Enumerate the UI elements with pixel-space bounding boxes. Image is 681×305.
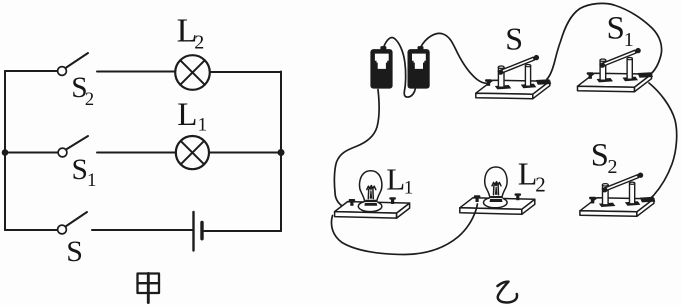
switch S (pictorial) [476, 55, 552, 99]
wire: battery1 bottom to lamp L1 [334, 90, 379, 208]
label S1 (pictorial) [607, 10, 634, 51]
svg-text:L: L [177, 97, 197, 133]
wire: switch S to switch S1 big arc [547, 3, 662, 79]
lamp L2 (schematic) [175, 55, 210, 90]
lamp L2 (pictorial) [460, 167, 535, 214]
wire: switch S1 down to switch S2 [647, 83, 677, 200]
svg-text:2: 2 [608, 156, 618, 178]
wire: middle branch left segment [5, 152, 58, 154]
label S2 (schematic) [71, 72, 94, 110]
label L1 (schematic) [177, 97, 207, 136]
switch S2 (pictorial) [580, 173, 656, 217]
wire: top branch middle segment [97, 71, 175, 73]
wire: middle branch right segment [209, 152, 281, 154]
wire: right vertical rail [280, 72, 282, 232]
wire: battery2 top to switch S [421, 33, 487, 83]
label L2 (schematic) [177, 13, 205, 54]
wire: bottom branch left segment [5, 229, 58, 231]
label S2 (pictorial) [591, 138, 618, 179]
svg-text:1: 1 [87, 170, 97, 191]
wire: top branch left segment [5, 70, 58, 72]
label S1 (schematic) [72, 154, 97, 191]
wire: middle branch middle segment [97, 152, 176, 154]
svg-text:S: S [72, 154, 88, 186]
label S (pictorial) [505, 21, 523, 57]
svg-text:2: 2 [194, 31, 204, 53]
wire: top branch right segment [210, 71, 281, 73]
switch S1 (schematic) [58, 136, 88, 157]
svg-text:L: L [386, 161, 405, 196]
svg-text:1: 1 [624, 29, 634, 51]
svg-text:2: 2 [535, 172, 546, 196]
svg-text:S: S [607, 10, 625, 46]
switch S2 (schematic) [58, 53, 88, 75]
svg-text:S: S [505, 21, 523, 57]
svg-text:S: S [591, 138, 609, 174]
battery cell 1 (pictorial) [370, 46, 392, 89]
wire: bottom branch right segment [204, 230, 281, 232]
label S (schematic) [66, 235, 83, 268]
wire: bottom branch middle segment [92, 229, 192, 231]
lamp L1 (pictorial) [335, 171, 410, 218]
svg-text:1: 1 [404, 178, 414, 199]
wire: left vertical rail [4, 71, 6, 230]
caption jia [138, 274, 160, 303]
battery cell 2 (pictorial) [408, 46, 430, 89]
switch S1 (pictorial) [578, 48, 654, 92]
svg-text:S: S [66, 235, 83, 268]
svg-text:2: 2 [85, 90, 94, 110]
node: right junction dot [278, 149, 285, 156]
node: left junction dot [2, 149, 9, 156]
label L1 (pictorial) [386, 161, 413, 198]
wire: lamp L1 to lamp L2 swoop [331, 204, 477, 255]
svg-text:1: 1 [198, 115, 208, 136]
wire: battery1 top to battery2 bottom [384, 38, 416, 98]
lamp L1 (schematic) [176, 136, 209, 169]
battery (schematic cell) [194, 212, 203, 251]
label L2 (pictorial) [518, 156, 546, 197]
caption yi [498, 282, 518, 303]
switch S (schematic) [58, 212, 87, 234]
